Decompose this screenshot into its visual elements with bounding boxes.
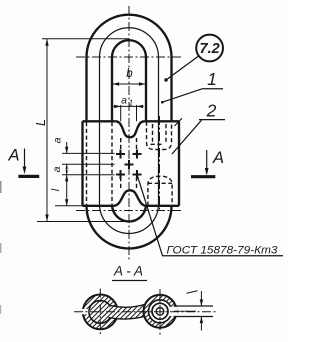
hidden slot below cup (dashed) [121, 138, 137, 158]
central bar (two sheet layers, hatched) [109, 305, 145, 320]
leader of 7.2 with dot [166, 56, 199, 80]
hidden wire end dome, lower right (dashed) [148, 176, 172, 206]
extension of plate bottom edge for l [55, 205, 83, 207]
short hidden tick near plate corner [175, 118, 183, 126]
svg-text:A - A: A - A [113, 264, 143, 279]
hidden inner contour left (dashed) [111, 122, 113, 206]
weld spot marks (+) [116, 150, 142, 180]
weld size circle 7.2 [196, 35, 223, 62]
hidden inner slot of wire end, upper right (dashed) [153, 124, 167, 143]
dimension a1 extension lines [121, 105, 137, 121]
section centerlines [74, 311, 217, 313]
right tab (sheet ends) [174, 306, 214, 317]
section mark A left: arrow [24, 149, 26, 172]
middle thin contour, top half [100, 28, 159, 122]
weld designation leader [137, 175, 283, 256]
plate right edge [178, 121, 180, 206]
svg-text:7.2: 7.2 [200, 41, 220, 57]
svg-text:a: a [121, 95, 127, 107]
horizontal centerline, bottom arc [76, 210, 182, 212]
svg-text:A: A [212, 149, 224, 167]
bell bump on plate bottom edge [114, 190, 147, 206]
dimension L line [46, 39, 48, 222]
plate left edge [81, 121, 83, 206]
horizontal centerline, top arc [76, 56, 182, 58]
hidden outer contour left (dashed) [86, 122, 88, 206]
section mark A right: thick stroke [191, 175, 215, 178]
outer contour of link, top half [87, 15, 172, 122]
slit in right plate ring [168, 307, 177, 316]
scan smudges [0, 181, 2, 193]
section mark A right: arrow [206, 150, 208, 173]
outer contour of link, bottom half [87, 206, 172, 249]
hidden slot above bell (dashed) [121, 177, 137, 191]
leader of 1 [162, 89, 202, 103]
svg-text:a: a [52, 137, 64, 143]
inner hole contour, bottom half [112, 205, 146, 222]
right plate ring (hatched annulus) [144, 295, 177, 328]
svg-text:b: b [126, 68, 133, 80]
svg-text:1: 1 [207, 69, 217, 89]
centerline of right hidden slot [159, 116, 161, 211]
left plate ring (hatched annulus) [83, 295, 118, 330]
plate body (white cover) [83, 121, 180, 206]
middle thin contour through plate, left [99, 121, 101, 206]
svg-text:A: A [7, 147, 19, 165]
plate top edge [83, 120, 180, 122]
hidden chord of dome (dashed) [148, 182, 172, 184]
dimension L extension lines [37, 39, 129, 222]
inner hole contour, top half [112, 40, 146, 121]
arrowheads of a,a,l [65, 147, 68, 206]
svg-text:a: a [51, 166, 63, 172]
middle thin contour, bottom half [100, 204, 159, 234]
dimension a a l stack line [66, 142, 68, 206]
plate bottom edge [83, 205, 180, 207]
leader tick of thickness dim [187, 291, 198, 293]
svg-text:ГОСТ 15878-79-Кm3: ГОСТ 15878-79-Кm3 [167, 245, 279, 257]
sheet thickness dimension [200, 291, 202, 331]
dimension b line with arrows [113, 83, 145, 85]
dimension a1 line with outside arrows [114, 105, 144, 107]
vertical centerline of link [128, 6, 130, 262]
row extension lines for a, a, l [62, 153, 115, 174]
svg-text:L: L [34, 119, 48, 126]
left wire cross-section (hatched disc) [89, 301, 112, 324]
hidden wire end U-shape, upper right (dashed) [147, 122, 172, 150]
leader of 2 [172, 120, 202, 154]
hidden chord of U bottom (dashed) [151, 143, 165, 145]
cup notch in plate top edge [115, 121, 144, 137]
slit in left plate ring [80, 309, 90, 314]
right wire end circles [152, 303, 168, 319]
svg-text:1: 1 [129, 99, 133, 108]
section mark A left: thick stroke [18, 175, 39, 178]
svg-text:2: 2 [206, 101, 217, 121]
middle thin contour through plate, right [158, 121, 160, 206]
